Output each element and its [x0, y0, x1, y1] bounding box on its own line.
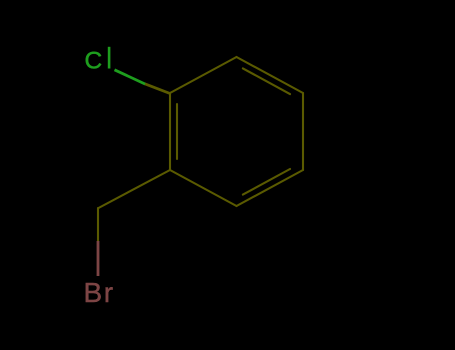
wire bond C5-C6 (bottom-left edge)	[170, 170, 237, 206]
wire bond C1-C2 (top-left edge)	[170, 57, 237, 93]
wire bond C6-CH2 (to bromomethyl carbon)	[99, 170, 171, 208]
svg-text:C: C	[85, 48, 103, 75]
wire bond CH2-Br upper olive half	[97, 208, 99, 242]
bond C1-Cl olive half (ring side)	[145, 84, 171, 94]
double bond inner line C6-C1	[176, 104, 178, 159]
wire bond C4-C5 (bottom-right edge)	[237, 170, 304, 206]
wire bond C6-C1 (left edge)	[169, 93, 171, 170]
atom label Cl : letter l drawn as bar	[108, 47, 111, 69]
bond CH2-Br maroon half (Br side)	[97, 241, 100, 276]
wire bond C2-C3 (top-right edge)	[237, 57, 304, 93]
wire bond C3-C4 (right edge)	[302, 93, 304, 170]
svg-text:Br: Br	[84, 277, 115, 308]
double bond inner line C2-C3	[243, 68, 290, 94]
bond C1-Cl green half (Cl side)	[115, 70, 146, 84]
benzene ring C1-C6 (outline hexagon)	[98, 57, 303, 242]
double bond inner line C4-C5	[243, 169, 290, 195]
